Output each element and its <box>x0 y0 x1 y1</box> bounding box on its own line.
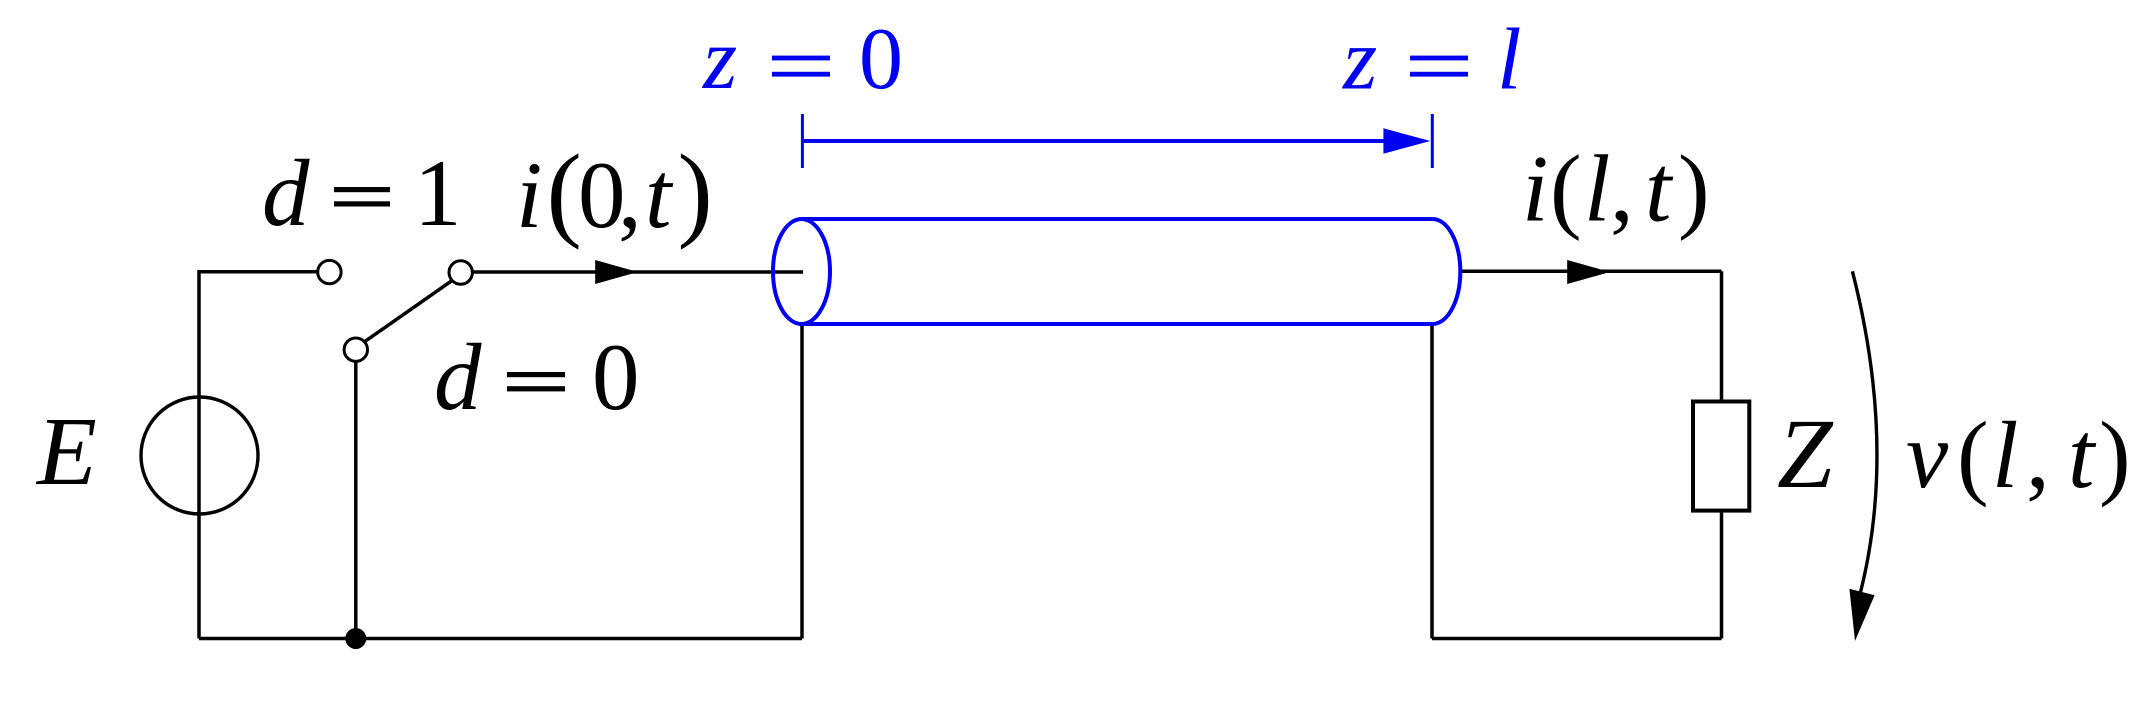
svg-text:z: z <box>702 11 737 108</box>
svg-text:,: , <box>2026 402 2050 508</box>
svg-text:d: d <box>434 324 482 430</box>
svg-text:t: t <box>1645 136 1674 242</box>
svg-text:i: i <box>516 142 542 248</box>
svg-text:0: 0 <box>859 11 903 108</box>
svg-text:z: z <box>1342 12 1377 109</box>
svg-text:): ) <box>678 133 713 250</box>
svg-text:,: , <box>1610 136 1634 242</box>
svg-text:(: ( <box>1550 136 1582 242</box>
svg-text:(: ( <box>1957 402 1989 508</box>
svg-text:): ) <box>2099 402 2131 508</box>
svg-text:Z: Z <box>1777 398 1834 509</box>
svg-text:l: l <box>1497 12 1521 109</box>
svg-text:): ) <box>1678 136 1710 242</box>
svg-text:1: 1 <box>414 140 462 246</box>
svg-text:l: l <box>1584 136 1610 242</box>
svg-text:(: ( <box>547 133 582 250</box>
svg-text:E: E <box>35 398 97 506</box>
svg-text:0: 0 <box>592 324 640 430</box>
svg-text:t: t <box>645 142 674 248</box>
svg-text:i: i <box>1522 136 1548 242</box>
svg-text:l: l <box>1992 402 2018 508</box>
svg-text:v: v <box>1906 402 1949 508</box>
svg-text:,: , <box>618 142 642 248</box>
svg-text:t: t <box>2068 402 2097 508</box>
svg-text:d: d <box>262 140 310 246</box>
